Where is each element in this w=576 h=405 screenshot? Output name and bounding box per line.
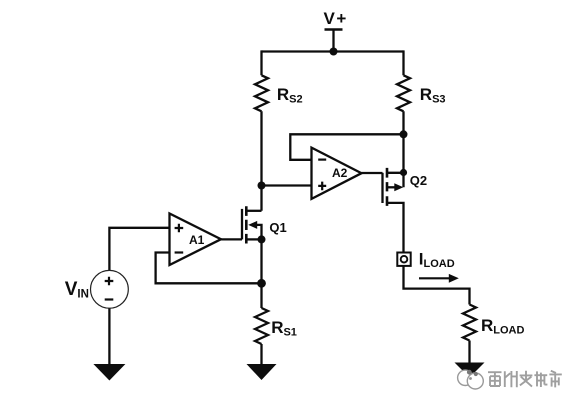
watermark text (stylized CJK strokes) [488, 371, 562, 388]
svg-text:RLOAD: RLOAD [481, 316, 525, 337]
svg-text:Q1: Q1 [269, 220, 286, 235]
A1 plus sign [175, 224, 184, 233]
wire: rail to RS3 [402, 50, 404, 75]
junction node: Q1 source [258, 235, 266, 243]
junction node: A2 plus tap [258, 182, 266, 190]
watermark logo [458, 370, 484, 389]
ground (VIN) [93, 364, 125, 381]
transistor Q2 body arrow [394, 183, 403, 191]
transistor Q2 gate bar [381, 173, 383, 203]
ground (RLOAD) [455, 363, 485, 378]
wire: RS3 bottom down to Q2 body [402, 111, 404, 187]
wire: Q1 body stub [257, 225, 262, 240]
transistor Q2 channel segments [386, 168, 389, 206]
wire: A1 feedback [156, 253, 262, 284]
wire: A2 output to Q2 gate [362, 172, 383, 174]
svg-text:Q2: Q2 [410, 173, 427, 188]
junction node: RS3 bottom [400, 130, 408, 138]
svg-text:VIN: VIN [65, 279, 89, 301]
ILOAD arrow line [419, 277, 450, 279]
resistor RLOAD [463, 305, 476, 341]
svg-text:ILOAD: ILOAD [419, 250, 455, 271]
wire: Q2 source to probe [387, 203, 404, 253]
wire: V+ stub [332, 30, 334, 52]
current probe square [397, 253, 410, 266]
wire: A2 plus input from node [262, 184, 312, 186]
wire: probe to RLOAD [404, 266, 470, 305]
wire: RS2 bottom to Q1 drain corner [260, 111, 262, 211]
svg-text:V+: V+ [324, 9, 347, 28]
transistor Q1 gate bar [241, 209, 243, 240]
wire: Q1 source [246, 238, 261, 240]
transistor Q1 channel segments [245, 206, 248, 243]
resistor RS1 [255, 308, 268, 344]
wire: A1 output to Q1 gate [221, 238, 242, 240]
source VIN circle [91, 270, 129, 308]
wire: Q1 drain [246, 210, 261, 212]
A1 minus sign [175, 251, 184, 253]
wire: V+ rail [262, 50, 404, 52]
wire: Q2 drain [387, 172, 404, 174]
VIN minus sign [105, 298, 114, 300]
svg-text:A1: A1 [189, 233, 205, 247]
junction node: Q2 drain [400, 169, 407, 176]
resistor RS2 [255, 75, 268, 111]
op-amp A1 [170, 214, 222, 266]
A2 plus sign [318, 182, 326, 191]
wire: feedback node to RS1 [260, 283, 262, 308]
svg-text:A2: A2 [332, 166, 348, 180]
wire: RS1 to ground [260, 344, 262, 364]
ground (RS1) [247, 364, 277, 380]
resistor RS3 [397, 75, 410, 111]
wire: RLOAD to ground [468, 341, 470, 364]
V+ terminal bar [325, 28, 343, 31]
junction node: A1 feedback / RS1 [257, 279, 266, 288]
svg-text:RS1: RS1 [271, 318, 297, 339]
wire: rail to RS2 [260, 50, 262, 75]
watermark logo ears [467, 370, 478, 380]
wire: Q2 body stub [387, 186, 395, 188]
current probe circle [401, 256, 408, 263]
VIN plus sign [105, 277, 114, 286]
op-amp A2 [312, 148, 362, 199]
wire: A2 feedback (RS3 bottom to A2 minus) [290, 134, 403, 160]
junction node: V+ rail [330, 48, 338, 56]
A2 minus sign [318, 159, 326, 161]
wire: Q1 source down to feedback node [260, 239, 262, 283]
ILOAD arrow [449, 274, 459, 283]
svg-text:RS2: RS2 [277, 85, 303, 106]
transistor Q1 body arrow [248, 221, 257, 229]
wire: VIN bottom to ground [108, 308, 110, 364]
wire: A1 plus input from VIN [109, 228, 169, 271]
svg-text:RS3: RS3 [420, 85, 446, 106]
